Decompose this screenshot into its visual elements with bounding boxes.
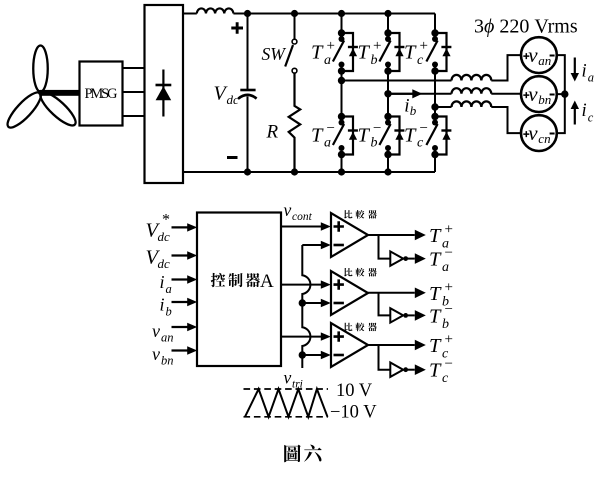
svg-text:v: v (528, 121, 538, 145)
svg-text:T: T (404, 124, 417, 146)
freewheel diode of Ta- (348, 131, 358, 140)
node bottom rail / R branch (291, 168, 298, 175)
wire phase a to grid (342, 55, 522, 80)
svg-text:a: a (166, 282, 172, 296)
svg-text:v: v (528, 43, 538, 67)
capacitor C (Vdc) (238, 14, 256, 173)
freewheel diode of Tc- (441, 131, 451, 140)
wire phase b to grid (388, 93, 521, 95)
svg-text:+: + (445, 332, 453, 348)
wire comparator 2 output (368, 292, 415, 294)
svg-text:−: − (445, 245, 453, 261)
svg-text:dc: dc (158, 256, 171, 271)
wire comparator 1 output (368, 234, 415, 236)
svg-text:T: T (429, 249, 442, 271)
turbine shaft (41, 90, 80, 96)
buffer gate 1 (390, 251, 403, 265)
svg-text:T: T (429, 225, 442, 247)
node phase a output (338, 77, 345, 84)
svg-text:b: b (371, 136, 378, 151)
node top rail / leg b (384, 10, 391, 17)
svg-text:A: A (260, 271, 274, 292)
voltage source vbn (521, 76, 557, 112)
inductor Lc (452, 101, 492, 107)
comparator U1 (331, 213, 368, 257)
svg-text:T: T (358, 124, 371, 146)
wire controller input 6 (172, 349, 189, 351)
wire buffer 2 output (408, 314, 415, 316)
freewheel diode of Tb+ (394, 47, 404, 56)
svg-text:+: + (327, 38, 335, 54)
wire vcont to comparator 2 + input (281, 284, 321, 286)
svg-text:v: v (152, 344, 160, 364)
svg-text:10 V: 10 V (336, 381, 373, 401)
arrow current ic (574, 108, 576, 125)
svg-text:T: T (429, 283, 442, 305)
svg-text:cn: cn (538, 131, 550, 146)
wire to inverter buffer 2 (379, 293, 391, 316)
svg-text:i: i (160, 295, 165, 315)
label comparator 2 (CJK) (344, 268, 376, 277)
svg-text:PMSG: PMSG (85, 86, 119, 102)
node vtri to comparator 2 (299, 299, 306, 306)
node phase c output (431, 103, 438, 110)
wire controller input 3 (172, 278, 189, 280)
svg-text:+: + (445, 279, 453, 295)
node bottom rail / leg a (338, 168, 345, 175)
svg-text:b: b (166, 305, 172, 319)
svg-text:c: c (417, 136, 424, 151)
svg-text:an: an (161, 331, 174, 345)
svg-text:+: + (445, 222, 453, 238)
svg-text:b: b (410, 103, 417, 118)
wire comparator 3 output (368, 344, 415, 346)
svg-text:v: v (528, 82, 538, 106)
node bottom rail / capacitor (244, 168, 251, 175)
svg-text:−: − (445, 356, 453, 372)
svg-text:c: c (417, 53, 424, 68)
inductor DC choke (197, 8, 234, 13)
svg-text:T: T (404, 42, 417, 64)
svg-text:a: a (442, 260, 449, 275)
svg-text:v: v (284, 200, 292, 220)
dashed level +10V (244, 388, 329, 390)
comparator U2 (331, 271, 368, 315)
rectifier box (145, 5, 184, 183)
svg-text:R: R (266, 122, 279, 143)
svg-text:T: T (429, 335, 442, 357)
minus polarity mark (227, 156, 238, 159)
svg-text:−: − (445, 302, 453, 318)
svg-text:3ϕ 220 Vrms: 3ϕ 220 Vrms (474, 16, 578, 38)
svg-text:T: T (429, 305, 442, 327)
inductor La (452, 75, 492, 81)
svg-text:T: T (429, 360, 442, 382)
IGBT switch Tc+ (426, 29, 446, 74)
svg-text:an: an (538, 53, 551, 68)
comparator U3 (331, 323, 368, 367)
wire inverter leg c (434, 14, 436, 173)
svg-text:i: i (582, 101, 587, 121)
inductor Lb (452, 88, 492, 94)
svg-text:bn: bn (538, 92, 551, 107)
wire bottom DC rail (183, 171, 435, 173)
label comparator 3 (CJK) (344, 323, 376, 332)
node vtri to comparator 3 (299, 351, 306, 358)
wire vtri distribution (302, 245, 321, 368)
wire phase c to grid (435, 107, 521, 133)
freewheel diode of Tb- (394, 131, 404, 140)
controller A box (197, 213, 281, 367)
svg-text:i: i (404, 95, 409, 116)
wire PMSG to rectifier (3 phases) (123, 68, 145, 116)
switch SW (285, 14, 297, 74)
svg-text:v: v (152, 321, 160, 341)
wire controller input 5 (172, 326, 189, 328)
buffer gate 3 (390, 363, 403, 377)
freewheel diode of Tc+ (441, 47, 451, 56)
wire inverter leg b (387, 14, 389, 173)
svg-text:cont: cont (292, 211, 313, 223)
wire top DC rail (183, 13, 435, 15)
svg-text:dc: dc (227, 92, 240, 107)
resistor R (289, 73, 301, 172)
svg-text:i: i (160, 272, 165, 292)
node phase b output (384, 90, 391, 97)
label comparator 1 (CJK) (344, 210, 376, 219)
wire to inverter buffer 1 (379, 235, 391, 259)
rectifier diode D1 (156, 70, 172, 117)
buffer gate 2 (390, 308, 403, 322)
svg-text:b: b (371, 53, 378, 68)
node neutral n (561, 90, 568, 97)
voltage source vcn (521, 115, 557, 151)
svg-text:T: T (311, 124, 324, 146)
svg-text:c: c (442, 371, 449, 386)
PMSG generator box (80, 62, 123, 126)
dashed level -10V (244, 416, 329, 418)
node top rail / capacitor (244, 10, 251, 17)
svg-text:T: T (311, 42, 324, 64)
triangular carrier wave (245, 389, 328, 417)
wire inverter leg a (341, 14, 343, 173)
IGBT switch Tb+ (379, 29, 399, 74)
wire to inverter buffer 3 (379, 345, 391, 370)
svg-text:b: b (442, 317, 449, 332)
svg-text:dc: dc (158, 229, 171, 244)
node top rail / leg a (338, 10, 345, 17)
svg-text:−: − (373, 121, 381, 137)
wire vcont to comparator 3 + input (281, 336, 321, 338)
svg-text:i: i (582, 62, 587, 82)
svg-text:a: a (324, 136, 331, 151)
plus polarity mark (231, 22, 243, 34)
wind turbine blades (3, 46, 80, 132)
svg-text:*: * (162, 212, 170, 229)
svg-text:a: a (588, 71, 594, 85)
svg-text:v: v (284, 368, 292, 388)
wire buffer 3 output (408, 369, 415, 371)
wire controller input 2 (172, 254, 189, 256)
wire controller input 1 (172, 226, 189, 228)
arrow current ib (392, 93, 415, 95)
IGBT switch Tc- (426, 113, 446, 158)
svg-text:SW: SW (262, 44, 287, 64)
caption figure six (CJK) (284, 445, 322, 463)
svg-text:−: − (420, 121, 428, 137)
wire vcont to comparator 1 + input (281, 226, 321, 228)
IGBT switch Ta+ (333, 29, 353, 74)
voltage source van (521, 37, 557, 73)
svg-text:a: a (324, 53, 331, 68)
wire controller input 4 (172, 301, 189, 303)
svg-text:T: T (358, 42, 371, 64)
svg-text:−10 V: −10 V (330, 403, 377, 423)
wire neutral bus right (557, 55, 565, 133)
node top rail / SW branch (291, 10, 298, 17)
IGBT switch Tb- (379, 113, 399, 158)
wire buffer 1 output (408, 258, 415, 260)
arrow current ia (574, 58, 576, 75)
svg-text:c: c (588, 111, 594, 125)
svg-text:+: + (420, 38, 428, 54)
svg-text:+: + (373, 38, 381, 54)
svg-text:−: − (327, 121, 335, 137)
freewheel diode of Ta+ (348, 47, 358, 56)
IGBT switch Ta- (333, 113, 353, 158)
node bottom rail / leg b (384, 168, 391, 175)
svg-text:bn: bn (161, 354, 174, 368)
